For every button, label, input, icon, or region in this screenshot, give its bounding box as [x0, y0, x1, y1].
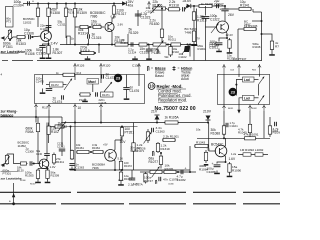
wire Q2 emitter	[110, 30, 113, 44]
svg-text:=: =	[178, 66, 180, 70]
node mid rail x190	[189, 44, 191, 46]
node rr x224	[223, 137, 225, 139]
capacitor C1324	[131, 42, 133, 46]
resistor R1315	[79, 25, 89, 28]
underline Regler-Mod	[157, 88, 187, 90]
wire box x101 down	[100, 75, 102, 84]
capacitor C1473	[102, 74, 104, 78]
diode 25V down	[206, 116, 211, 123]
wire x190 down	[189, 45, 191, 57]
capacitor C1342	[217, 4, 219, 8]
resistor R1476 on box top	[62, 73, 76, 76]
wire C1311 down	[61, 150, 63, 156]
pin box1 top a	[73, 63, 76, 75]
svg-text:Acuti: Acuti	[181, 77, 189, 81]
potentiometer arrow R1306	[151, 4, 160, 14]
capacitor C1082	[181, 170, 183, 174]
svg-text:Bassi: Bassi	[155, 74, 164, 78]
resistor R1346	[198, 4, 213, 7]
wire C1470 down	[42, 89, 44, 91]
capacitor C1476	[123, 88, 129, 90]
wire Lad1 right	[254, 79, 259, 81]
node bus x115	[114, 169, 116, 171]
wire box2 pin b down a	[249, 111, 251, 121]
wire col x162 to rail	[161, 41, 163, 45]
node rail A x48.5	[48, 3, 50, 5]
wire box inner mid	[104, 91, 106, 92]
wire R09A to base	[38, 163, 40, 165]
svg-text:R1472: R1472	[51, 83, 59, 87]
resistor R1319b	[80, 51, 95, 54]
ground R1090	[227, 174, 233, 178]
wire ground rail c	[37, 60, 262, 62]
wire bottom edge line 2	[0, 203, 280, 205]
resistor P1477	[79, 93, 91, 96]
node R1077 top	[160, 152, 162, 154]
connector box input	[6, 7, 14, 28]
wire col x162 top	[161, 9, 163, 27]
wire rail C2	[225, 6, 238, 9]
wire Q4 emitter	[46, 166, 47, 168]
capacitor C1304	[28, 1, 30, 5]
svg-text:1M R1092 L1092: 1M R1092 L1092	[240, 148, 264, 152]
node Q2 base chain	[89, 26, 91, 28]
wire right link y12	[253, 11, 262, 13]
switch label Lad1	[243, 77, 255, 82]
label box Max!	[87, 79, 99, 85]
wire switch2 down	[258, 104, 260, 105]
svg-text:+5V: +5V	[103, 144, 108, 147]
resistor R1313	[192, 6, 195, 26]
svg-text:Lad: Lad	[244, 96, 250, 100]
svg-text:10: 10	[149, 84, 154, 89]
resistor R1303	[16, 35, 26, 38]
potentiometer PT301 wiper	[4, 31, 12, 41]
node lower rail x157	[156, 122, 158, 124]
resistor R1471 boxed	[101, 92, 114, 97]
wire x208 junction down	[208, 123, 210, 152]
capacitor C1470	[46, 89, 52, 91]
wire x36 box pin	[35, 117, 37, 123]
capacitor C1320	[183, 7, 185, 11]
capacitor C1088	[214, 165, 221, 167]
transistor Q1 BC550C	[41, 31, 52, 42]
wire x133 down b	[133, 153, 135, 171]
capacitor C1363c	[69, 164, 74, 166]
wire x75 to mid rail	[74, 27, 76, 45]
resistor R1361	[76, 150, 90, 153]
svg-text:R031: R031	[228, 108, 234, 110]
wire col x75 down	[74, 22, 76, 27]
title circled 10	[148, 83, 155, 90]
capacitor C1305	[39, 46, 45, 48]
wire Q5 emitter	[114, 159, 115, 170]
node Q4 base	[33, 163, 35, 165]
svg-text:0.6V: 0.6V	[111, 15, 117, 19]
wire x225 to Q3	[224, 11, 226, 21]
potentiometer PT302 wiper	[58, 122, 66, 132]
resistor R1301b	[162, 138, 176, 141]
wire Q1 emitter	[48, 39, 50, 44]
node rail A x66	[65, 3, 67, 5]
node Q7 emitter	[225, 161, 227, 163]
svg-text:+: +	[32, 0, 34, 4]
underline Potentiomet mod	[158, 97, 186, 99]
node mid rail x112	[111, 44, 113, 46]
resistor R1317 col	[112, 4, 115, 17]
legend bass symbol	[148, 66, 150, 71]
resistor R1310	[64, 4, 67, 22]
resistor R1369	[70, 150, 73, 161]
resistor R1305	[36, 169, 39, 181]
node bus x190	[189, 171, 191, 173]
ground box mid	[82, 99, 88, 103]
wire box x126 down	[126, 89, 128, 96]
svg-text:47k R1091: 47k R1091	[244, 133, 259, 137]
svg-text:2.2k R1301: 2.2k R1301	[163, 135, 179, 139]
svg-text:2.6V: 2.6V	[118, 23, 124, 27]
node lower rail x208	[207, 122, 209, 124]
svg-text:=: =	[151, 66, 153, 70]
wire C17A up	[131, 170, 133, 178]
transistor Q2 BC550B	[105, 22, 114, 31]
resistor R1309	[46, 169, 49, 181]
ground Q1 emitter cap	[40, 55, 46, 59]
wire balance rail	[0, 116, 62, 118]
node rail A x38	[37, 3, 39, 5]
wire C1320 to diode	[185, 6, 186, 9]
wire box2 pin a down	[223, 111, 225, 138]
svg-text:12.4V: 12.4V	[226, 33, 233, 37]
pin box2 top a	[222, 64, 225, 74]
pin box2 bot arrow b	[237, 105, 240, 114]
resistor R1373	[119, 171, 122, 183]
resistor R1094 body	[255, 153, 263, 156]
resistor R1324 left of midrail	[67, 36, 70, 45]
pin box2 bot a	[222, 105, 225, 112]
wire pin c down	[74, 110, 76, 123]
capacitor C1344	[216, 43, 223, 45]
node Q4 emitter	[47, 168, 49, 170]
wire x194 to gnd	[193, 26, 195, 61]
resistor R09A	[36, 117, 39, 138]
wire right link y21	[252, 20, 262, 22]
wire col x138	[137, 10, 139, 26]
capacitor C13A1	[226, 123, 228, 127]
pin wiper top right	[147, 1, 150, 9]
node mid rail x75	[74, 44, 76, 46]
node rail B x162	[161, 8, 163, 10]
arrow input left	[1, 36, 5, 40]
pot wiper box left	[64, 79, 72, 91]
resistor R1041 body	[248, 121, 251, 136]
wire x238 down	[237, 29, 239, 61]
ground R1309	[45, 180, 51, 184]
resistor R102	[47, 123, 50, 139]
resistor R1203	[20, 162, 28, 165]
capacitor C1323	[135, 14, 141, 16]
resistor R1088 body	[222, 124, 225, 136]
underline Regolatori mod	[158, 101, 182, 103]
node lower rail x75	[74, 122, 76, 124]
resistor R1093	[268, 123, 271, 137]
capacitor C17A	[129, 178, 135, 180]
wire Q3 base	[205, 26, 217, 28]
module box switches	[218, 74, 270, 104]
svg-text:10V: 10V	[120, 140, 127, 144]
wire box x75 into box	[74, 75, 76, 81]
pin box1 top b	[99, 63, 102, 75]
resistor R1343	[194, 144, 209, 147]
wire Q4 collector	[45, 156, 48, 161]
svg-text:+: +	[220, 8, 222, 12]
pin box2 bot c	[248, 105, 251, 112]
wire box x126 up	[126, 75, 128, 88]
node rail A x57	[56, 3, 58, 5]
wire C1319 down	[148, 51, 150, 57]
diode mark R100x	[191, 44, 197, 46]
svg-text:1k R1346: 1k R1346	[201, 2, 213, 6]
svg-text:1.4V: 1.4V	[50, 165, 56, 169]
node rail C x194	[193, 5, 195, 7]
svg-text:+: +	[185, 167, 187, 171]
node mid rail x122	[121, 44, 123, 46]
wire box maxout down	[92, 84, 94, 92]
pin box1 bot d	[99, 104, 102, 111]
wire R1472 left	[46, 84, 50, 86]
svg-text:R10: R10	[42, 106, 48, 110]
legend treble symbol	[173, 66, 176, 71]
wire rail B mid	[167, 8, 168, 11]
capacitor C1315	[88, 34, 90, 38]
wire Q4 emitter left	[38, 168, 48, 170]
svg-text:C1080: C1080	[168, 184, 174, 186]
wire Q5 collector	[114, 140, 115, 151]
resistor R1340	[228, 38, 231, 50]
node balance x36	[35, 116, 37, 118]
node rail A x75	[74, 3, 76, 5]
resistor R1630	[160, 26, 163, 41]
node mid rail x99	[98, 44, 100, 46]
wire to R1347	[262, 34, 273, 39]
resistor R1312	[73, 4, 76, 23]
capacitor C1309	[44, 154, 50, 156]
capacitor C1306	[29, 35, 31, 39]
wire C1305 down	[42, 47, 44, 55]
resistor R1341	[238, 7, 252, 10]
wire x75 bus	[74, 152, 76, 170]
wire col x48 down	[48, 21, 50, 31]
node right x261 y34	[261, 33, 263, 35]
wire x128 down	[127, 34, 129, 45]
legend mark bass at R1077	[153, 151, 155, 156]
resistor R1307	[47, 44, 50, 56]
wire x122 midlink	[120, 137, 122, 161]
diode D1301	[122, 1, 126, 5]
ground R1340	[227, 50, 233, 54]
wire col x66 down	[65, 21, 67, 38]
capacitor C1475a	[96, 92, 98, 96]
resistor R1319c	[156, 142, 159, 153]
capacitor C1474	[62, 95, 64, 99]
wire C1322 to gnd	[205, 18, 207, 60]
node Q1 emitter	[48, 43, 50, 45]
node base Q1	[32, 36, 34, 38]
wire x70 down	[70, 127, 72, 153]
resistor R1372	[119, 161, 122, 171]
capacitor C1093	[275, 122, 277, 126]
wire ground rail b	[12, 60, 33, 62]
transistor Q5 BC550BA	[105, 150, 117, 162]
wire right edge x261a	[261, 12, 263, 52]
ground C1318 mid	[132, 56, 138, 60]
underline zur Lautstaerke top	[1, 53, 19, 55]
svg-text:2.4V: 2.4V	[51, 42, 59, 46]
node PT301 out	[9, 39, 11, 41]
svg-text:R1343: R1343	[196, 141, 205, 145]
wire Lad2 right	[254, 97, 259, 99]
wire box2 x224	[223, 74, 225, 104]
svg-text:21V: 21V	[151, 110, 158, 114]
switch arrow 1	[259, 77, 265, 85]
wire Q7 emitter left	[217, 162, 226, 164]
wire R102 down	[48, 138, 50, 143]
wire col x57 stub	[56, 4, 58, 10]
wire Q7 base	[209, 150, 216, 152]
capacitor C1363b	[152, 128, 154, 132]
wire x196 rail down	[196, 9, 198, 45]
wire right edge x253	[252, 9, 254, 12]
resistor R1347	[270, 39, 273, 53]
wire bus left ext	[140, 171, 149, 173]
wire Lad1 left	[236, 80, 242, 96]
pin box1 bot c	[73, 104, 76, 111]
wire Q7 emitter	[224, 155, 226, 162]
svg-text:zur Lautstärke: zur Lautstärke	[1, 50, 26, 54]
ground C1476	[124, 96, 130, 100]
module box tone control	[35, 75, 145, 104]
svg-text:23: 23	[116, 76, 121, 81]
diode mark R1084	[204, 164, 209, 166]
resistor R1314b	[92, 25, 102, 28]
node marker 23 dark circle right	[229, 88, 237, 96]
potentiometer P1321 wiper	[156, 41, 164, 51]
wire lower rail 2	[65, 126, 138, 128]
svg-text:zur Lautstärke: zur Lautstärke	[1, 177, 22, 181]
transistor Q3 BC549C	[217, 21, 229, 33]
ground C1319	[146, 56, 152, 60]
resistor R1317b	[114, 43, 129, 46]
wire ground rail	[2, 60, 8, 62]
svg-text:5.1V: 5.1V	[118, 157, 124, 161]
svg-text:R1471: R1471	[102, 93, 110, 97]
resistor R1084	[204, 150, 207, 163]
svg-text:Lad: Lad	[244, 78, 250, 82]
node bus x75	[74, 169, 76, 171]
resistor R1304	[47, 4, 50, 22]
svg-text:No.75007 022 00: No.75007 022 00	[155, 106, 196, 112]
inductor L1092 body	[243, 153, 251, 156]
potentiometer P1326 wiper	[144, 132, 152, 144]
transistor Q7 BC549	[215, 145, 227, 157]
node marker 21 dark circle	[114, 74, 122, 82]
zener diode 21V	[155, 115, 160, 123]
arrow marker on line 1	[12, 183, 15, 205]
svg-text:R032: R032	[252, 108, 258, 110]
wire col x38 down	[37, 21, 39, 27]
resistor R105A	[164, 121, 179, 124]
capacitor C1079	[159, 177, 161, 181]
wire C1315 down	[88, 39, 90, 45]
pin box1 top c	[137, 63, 140, 75]
wire x270 up	[269, 117, 271, 123]
svg-text:10a: 10a	[196, 128, 201, 132]
resistor PT351	[120, 127, 123, 138]
pot dark blob P1102	[184, 46, 190, 52]
ground C1344	[216, 49, 222, 53]
svg-text:10: 10	[78, 106, 82, 110]
wire R1472 right	[63, 84, 67, 86]
wire pin b to R1055	[49, 126, 54, 128]
wire top rail A	[23, 3, 124, 5]
ground R1305	[35, 180, 41, 184]
resistor P1326 body	[146, 129, 149, 143]
transistor Q4 BC550C	[39, 159, 49, 169]
pin box1 bot b	[47, 104, 50, 111]
svg-text:R126: R126	[77, 64, 85, 68]
svg-text:BC549C: BC549C	[211, 143, 224, 147]
ground C1363c	[69, 167, 75, 171]
resistor R1071 body	[132, 142, 135, 153]
wire box2 pin c down	[263, 111, 265, 125]
wire right edge x261b	[261, 52, 263, 61]
capacitor C1300	[46, 26, 52, 28]
node blob top	[187, 44, 189, 46]
wire x99 stub	[98, 45, 100, 54]
wire Q4 base	[7, 154, 20, 164]
resistor P1321 body	[152, 43, 167, 46]
wire mid rail	[60, 44, 197, 46]
wire box2 x239 in	[238, 74, 240, 77]
ground R1373	[118, 182, 124, 186]
node R1319b right	[94, 52, 96, 54]
node rail C x225	[224, 5, 226, 7]
potentiometer P1747 wiper	[152, 167, 160, 178]
wire x62 mid down	[61, 123, 63, 148]
potentiometer PT301 body	[8, 29, 11, 40]
wire pin a down	[35, 110, 37, 117]
underline Control mod	[158, 93, 178, 95]
ground R1347	[269, 52, 275, 56]
resistor R1311	[52, 153, 55, 166]
node lower rail x101	[100, 122, 102, 124]
capacitor C1308	[30, 161, 32, 165]
wire C1319 up	[148, 45, 150, 50]
resistor R100x body	[192, 31, 195, 42]
node mid rail x161	[160, 44, 162, 46]
node bus x178	[177, 171, 179, 173]
wire rail C	[191, 5, 225, 7]
wire input to base Q1	[10, 37, 16, 40]
node mid rail x88	[87, 44, 89, 46]
wire R1345 left	[238, 28, 243, 30]
svg-text:23: 23	[231, 90, 236, 95]
underline Basse	[155, 69, 166, 71]
pin box1 bot a	[34, 104, 37, 111]
wire R09A down	[37, 138, 39, 164]
pin box2 top b	[237, 64, 240, 74]
wire cap to base Q1	[31, 36, 41, 37]
